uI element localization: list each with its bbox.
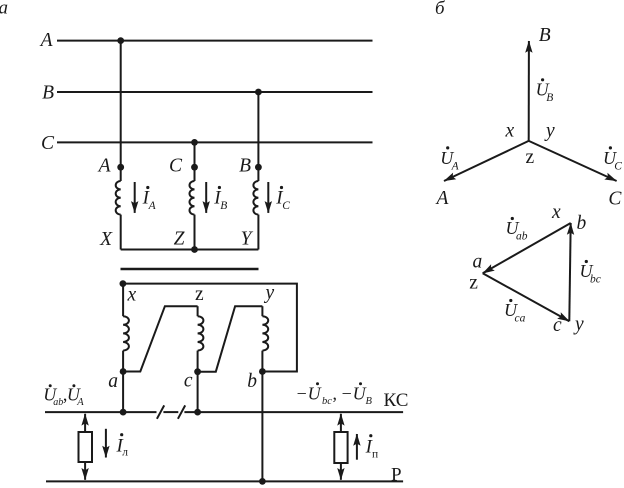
svg-text:−U: −U	[341, 384, 367, 404]
wire dropper phase B	[257, 92, 259, 181]
phasor UC (star)	[529, 141, 617, 181]
current arrow IB	[205, 182, 207, 213]
svg-text:y: y	[264, 283, 275, 304]
svg-text:Р: Р	[391, 465, 402, 486]
svg-text:B: B	[42, 83, 54, 104]
svg-text:z: z	[526, 147, 535, 168]
svg-text:y: y	[544, 121, 555, 142]
secondary coil x-a	[123, 316, 129, 350]
phasor Uca (triangle)	[483, 273, 570, 321]
core separator line	[121, 268, 259, 271]
phasor UB (star)	[528, 41, 530, 141]
primary coil A-X	[116, 181, 121, 215]
current arrow Iп	[356, 434, 358, 460]
svg-text:A: A	[435, 188, 449, 209]
svg-text:A: A	[451, 160, 460, 172]
node b	[259, 368, 266, 375]
node c	[194, 368, 201, 375]
phasor Ubc (triangle)	[569, 223, 570, 321]
wire dropper phase C	[194, 142, 196, 181]
svg-text:C: C	[282, 200, 290, 212]
primary coil B-Y	[253, 181, 258, 215]
svg-text:x: x	[505, 121, 515, 142]
break middle segment	[163, 411, 178, 413]
current arrow IC	[267, 182, 269, 213]
contact wire KC left segment	[45, 411, 157, 413]
primary coil C-Z	[190, 181, 195, 215]
svg-text:c: c	[553, 315, 562, 336]
contact wire KC right segment	[184, 411, 403, 413]
junction dot Z bottom	[191, 246, 198, 253]
svg-text:B: B	[546, 92, 553, 104]
phasor Uab (triangle)	[483, 223, 571, 273]
terminal dot B	[255, 164, 262, 171]
node a	[120, 368, 127, 375]
svg-text:bc: bc	[322, 396, 332, 407]
phase line C	[57, 141, 373, 143]
wire coil to Z	[194, 215, 196, 250]
load resistor right	[334, 432, 347, 463]
svg-text:x: x	[127, 285, 137, 306]
wire x to coil	[122, 284, 124, 317]
junction b on rail	[259, 478, 266, 485]
junction dot on line C	[191, 139, 198, 146]
load resistor left	[79, 432, 93, 462]
svg-text:б: б	[435, 0, 446, 19]
phase line A	[57, 40, 373, 42]
svg-text:ca: ca	[515, 313, 526, 325]
svg-text:л: л	[122, 447, 128, 459]
svg-text:A: A	[39, 30, 53, 51]
wire y to coil	[261, 306, 263, 316]
svg-text:X: X	[99, 229, 113, 250]
svg-text:A: A	[76, 397, 84, 408]
voltage arrow down left	[84, 462, 86, 480]
junction dot on line B	[255, 89, 262, 96]
current arrow Iл	[105, 429, 107, 458]
svg-text:Z: Z	[174, 229, 185, 250]
svg-text:C: C	[41, 133, 55, 154]
svg-text:КС: КС	[384, 390, 409, 411]
svg-text:a: a	[473, 252, 483, 273]
svg-text:B: B	[539, 25, 551, 46]
svg-text:B: B	[239, 155, 251, 176]
phasor UA (star)	[444, 141, 529, 181]
wire coil to Y	[257, 215, 259, 250]
svg-text:b: b	[247, 371, 257, 392]
wire coil to node a and down to KC	[122, 351, 124, 413]
node x dot	[120, 280, 127, 287]
svg-text:а: а	[0, 0, 8, 18]
break slash 1	[157, 405, 164, 418]
svg-text:b: b	[577, 213, 587, 234]
secondary coil z-c	[198, 316, 204, 350]
svg-text:B: B	[220, 200, 227, 212]
svg-text:C: C	[169, 155, 183, 176]
svg-text:ab: ab	[53, 397, 63, 408]
primary bottom bus X-Z-Y	[121, 249, 259, 251]
wire coil through node b down to rail P	[261, 351, 263, 482]
junction dot on line A	[117, 37, 124, 44]
secondary top bus with right return	[123, 284, 297, 372]
wire dropper phase A	[120, 41, 122, 181]
svg-text:z: z	[195, 284, 204, 305]
svg-text:п: п	[372, 449, 378, 461]
svg-text:A: A	[148, 200, 157, 212]
svg-text:c: c	[184, 371, 193, 392]
current arrow IA	[134, 182, 136, 213]
terminal dot C	[191, 164, 198, 171]
secondary coil y-b	[262, 316, 268, 350]
svg-text:C: C	[614, 160, 622, 172]
voltage arrow down right	[340, 463, 342, 480]
junction c on KC	[194, 409, 201, 416]
voltage arrow up left	[84, 414, 86, 432]
svg-text:bc: bc	[590, 274, 601, 286]
terminal dot A	[117, 164, 124, 171]
wire z to coil	[197, 306, 199, 316]
svg-text:C: C	[608, 189, 622, 210]
svg-text:x: x	[551, 202, 561, 223]
svg-text:a: a	[108, 371, 118, 392]
zigzag wire a to z-top	[123, 306, 198, 371]
voltage arrow up right	[340, 414, 342, 432]
junction a on KC	[120, 409, 127, 416]
svg-text:z: z	[469, 273, 478, 294]
svg-text:−U: −U	[296, 384, 322, 404]
svg-text:ab: ab	[516, 231, 528, 243]
phase line B	[57, 91, 373, 93]
break slash 2	[178, 405, 185, 418]
wire coil to node c and down to KC	[197, 351, 199, 413]
svg-text:y: y	[573, 314, 584, 335]
svg-text:A: A	[97, 155, 111, 176]
zigzag wire c to y-top	[198, 306, 263, 372]
svg-text:B: B	[366, 396, 373, 407]
wire coil to X	[120, 215, 122, 250]
svg-text:Y: Y	[241, 229, 254, 250]
rail P line	[46, 480, 403, 482]
svg-text:,: ,	[333, 384, 338, 404]
